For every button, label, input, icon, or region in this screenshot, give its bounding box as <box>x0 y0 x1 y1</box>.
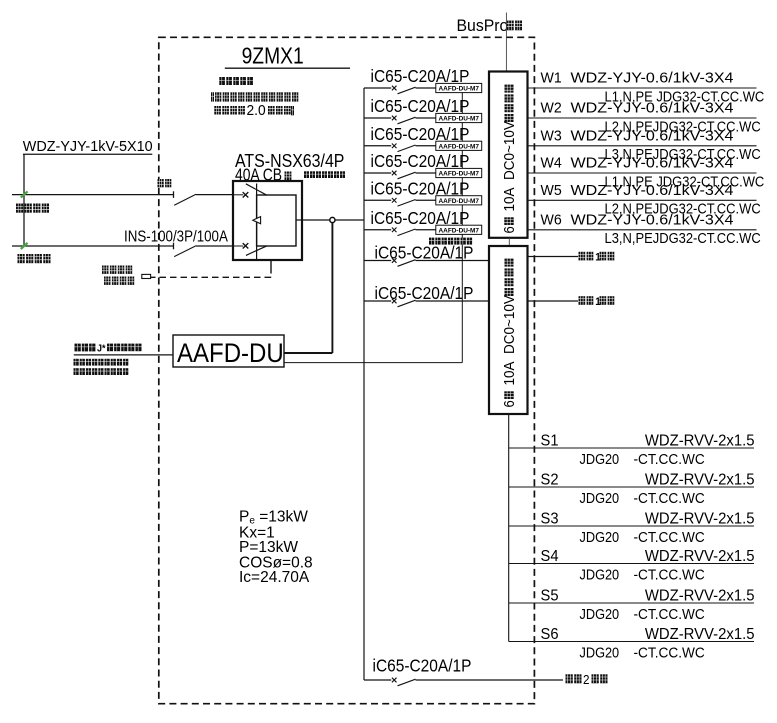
green grip mark on working feed <box>21 243 28 249</box>
svg-text:BusPro: BusPro <box>457 16 509 35</box>
ATS bottom pole cross <box>243 243 249 248</box>
breaker QF6 cross mark <box>392 228 397 233</box>
wire stub from bus to QF7 <box>364 260 391 262</box>
switch blade backup feed <box>174 194 196 205</box>
svg-text:2: 2 <box>583 672 590 687</box>
ATS output wire <box>296 219 330 221</box>
backup feed wire <box>12 194 174 196</box>
svg-text:9ZMX1: 9ZMX1 <box>242 43 304 69</box>
svg-text:WDZ-RVV-2x1.5: WDZ-RVV-2x1.5 <box>645 548 755 565</box>
feeder label leader line <box>23 153 152 155</box>
distribution bus vertical <box>363 88 365 680</box>
note: enclosure type (CJK) <box>219 77 253 85</box>
switch contact tick working <box>173 243 175 250</box>
svg-text:-CT.CC.WC: -CT.CC.WC <box>634 567 705 584</box>
arc detector AAFD-DU-M7 #6 box <box>436 225 482 234</box>
ATS top blade <box>246 184 267 195</box>
ATS selector triangle <box>253 217 261 224</box>
output wire W3 <box>528 145 757 147</box>
svg-text:JDG20: JDG20 <box>580 528 620 545</box>
wire node to distribution bus <box>335 219 364 221</box>
svg-text:S3: S3 <box>541 510 559 527</box>
fire trip dashed wire <box>151 276 271 278</box>
svg-text:S4: S4 <box>541 548 559 565</box>
label gate-down (CJK) <box>158 179 172 187</box>
label spare circuit 3 (CJK) <box>566 672 608 687</box>
ATS fire trip drop solid <box>270 261 272 269</box>
breaker QF5 blade <box>398 200 416 207</box>
svg-text:JDG20: JDG20 <box>580 605 620 622</box>
signal wire S1 <box>509 447 754 449</box>
signal wire S3 <box>509 525 754 527</box>
label signal line to control center (CJK) <box>75 343 142 355</box>
label fault arc detector (CJK) <box>429 238 472 245</box>
svg-text:iC65-C20A/1P: iC65-C20A/1P <box>375 284 474 303</box>
svg-text:WDZ-YJY-0.6/1kV-3X4: WDZ-YJY-0.6/1kV-3X4 <box>571 70 734 86</box>
note: mounting height 2.0m (CJK) <box>214 102 294 118</box>
breaker QF3 blade <box>398 145 416 152</box>
breaker QF9 blade <box>398 679 416 686</box>
signal wire S6 <box>509 641 754 643</box>
AAFD-DU riser wire to node A <box>331 223 333 353</box>
ATS U1 box <box>233 181 302 260</box>
svg-text:J*: J* <box>97 343 106 355</box>
svg-text:WDZ-RVV-2x1.5: WDZ-RVV-2x1.5 <box>645 432 755 449</box>
label fire cutoff (CJK) <box>104 277 134 285</box>
green grip mark on backup feed <box>21 191 28 197</box>
svg-text:-CT.CC.WC: -CT.CC.WC <box>634 645 705 662</box>
switch contact tick backup <box>173 191 175 198</box>
svg-text:-CT.CC.WC: -CT.CC.WC <box>634 451 705 468</box>
svg-text:AAFD-DU: AAFD-DU <box>177 339 284 369</box>
svg-text:WDZ-RVV-2x1.5: WDZ-RVV-2x1.5 <box>645 626 755 643</box>
note: install location line (CJK) <box>211 92 298 101</box>
svg-text:Ic=24.70A: Ic=24.70A <box>239 569 310 586</box>
svg-text:iC65-C20A/1P: iC65-C20A/1P <box>373 657 472 676</box>
spare output wire 2 <box>528 300 579 302</box>
label fire module (CJK) <box>102 266 132 274</box>
svg-text:iC65-C20A/1P: iC65-C20A/1P <box>375 244 474 263</box>
svg-text:AAFD-DU-M7: AAFD-DU-M7 <box>439 85 480 92</box>
AAFD-DU detector bus horizontal <box>284 362 462 364</box>
output wire W6 <box>528 229 757 231</box>
svg-text:-CT.CC.WC: -CT.CC.WC <box>634 606 705 623</box>
breaker QF6 blade <box>398 229 416 236</box>
wire backup blade to ATS <box>196 194 233 196</box>
svg-text:JDG20: JDG20 <box>580 489 620 506</box>
svg-text:L3,N,PEJDG32-CT.CC.WC: L3,N,PEJDG32-CT.CC.WC <box>605 229 761 246</box>
svg-text:WDZ-YJY-0.6/1kV-3X4: WDZ-YJY-0.6/1kV-3X4 <box>571 182 734 198</box>
label note line2 (CJK) <box>74 359 129 366</box>
wire from QF4 to right <box>416 172 437 174</box>
feeder drop wire <box>23 154 25 246</box>
svg-text:6: 6 <box>501 226 517 234</box>
label backup source (CJK) <box>16 204 49 213</box>
signal wire S2 <box>509 486 754 488</box>
svg-text:W4: W4 <box>541 155 562 171</box>
wire from QF9 to right <box>416 679 564 681</box>
breaker QF4 cross mark <box>392 171 397 176</box>
svg-text:WDZ-RVV-2x1.5: WDZ-RVV-2x1.5 <box>645 471 755 488</box>
arc detector AAFD-DU-M7 #5 box <box>436 196 482 205</box>
svg-text:AAFD-DU-M7: AAFD-DU-M7 <box>439 115 480 122</box>
svg-text:WDZ-YJY-1kV-5X10: WDZ-YJY-1kV-5X10 <box>23 139 153 155</box>
arc detector AAFD-DU-M7 #1 box <box>436 83 482 92</box>
panel enclosure dashed border 9ZMX1 <box>159 37 535 703</box>
svg-text:JDG20: JDG20 <box>580 450 620 467</box>
svg-text:W6: W6 <box>541 212 562 228</box>
wire from QF8 to right <box>416 300 489 302</box>
svg-text:10A DC0~10V: 10A DC0~10V <box>500 121 517 212</box>
dimmer module U2 box 6x10A DC0-10V <box>489 72 528 238</box>
arc detector AAFD-DU-M7 #2 box <box>436 113 482 122</box>
svg-text:AAFD-DU-M7: AAFD-DU-M7 <box>439 227 480 234</box>
svg-text:W3: W3 <box>541 128 562 144</box>
label working source (CJK) <box>18 254 51 263</box>
ATS fire trip drop dashed <box>270 269 272 278</box>
ATS divider line <box>256 184 258 260</box>
note fire signal interface (CJK) <box>304 171 345 178</box>
svg-text:JDG20: JDG20 <box>580 565 620 582</box>
AAFD-DU unit box <box>173 335 284 367</box>
output wire W5 <box>528 199 757 201</box>
switch blade working feed <box>174 246 196 257</box>
link between dimmer modules <box>508 238 510 246</box>
ATS internal wire bottom <box>234 245 243 247</box>
wire into AAFD-DU <box>74 354 173 356</box>
wire working blade to ATS <box>196 245 233 247</box>
title underline <box>225 67 350 69</box>
svg-text:S5: S5 <box>541 587 559 604</box>
dimmer module U3 rotated label <box>500 259 517 408</box>
ATS mechanism box <box>257 195 296 246</box>
breaker QF7 blade <box>398 260 416 267</box>
svg-text:WDZ-RVV-2x1.5: WDZ-RVV-2x1.5 <box>645 510 755 527</box>
wire stub from bus to QF5 <box>364 199 391 201</box>
wire stub from bus to QF6 <box>364 229 391 231</box>
wire stub from bus to QF3 <box>364 145 391 147</box>
ATS bottom blade <box>246 246 267 256</box>
breaker QF2 cross mark <box>392 116 397 121</box>
wire from QF7 to right <box>416 260 489 262</box>
svg-text:INS-100/3P/100A: INS-100/3P/100A <box>124 229 228 246</box>
node A output junction <box>330 217 335 222</box>
svg-text:AAFD-DU-M7: AAFD-DU-M7 <box>439 198 480 205</box>
svg-text:40A CB: 40A CB <box>235 166 282 185</box>
breaker QF4 blade <box>398 172 416 179</box>
breaker QF1 cross mark <box>392 86 397 91</box>
svg-text:S6: S6 <box>541 626 559 643</box>
signal wire S5 <box>509 602 754 604</box>
wire stub from bus to QF8 <box>364 300 391 302</box>
wire from QF6 to right <box>416 229 437 231</box>
svg-text:WDZ-YJY-0.6/1kV-3X4: WDZ-YJY-0.6/1kV-3X4 <box>571 155 734 171</box>
dimmer module U2 rotated label <box>500 85 517 234</box>
wire stub from bus to QF9 <box>364 679 391 681</box>
wire stub from bus to QF2 <box>364 117 391 119</box>
svg-text:-CT.CC.WC: -CT.CC.WC <box>634 529 705 546</box>
working feed wire <box>12 245 174 247</box>
spare output wire 1 <box>528 256 579 258</box>
svg-text:AAFD-DU-M7: AAFD-DU-M7 <box>439 143 480 150</box>
fire module connector box <box>142 274 151 278</box>
svg-text:WDZ-RVV-2x1.5: WDZ-RVV-2x1.5 <box>645 587 755 604</box>
svg-text:-CT.CC.WC: -CT.CC.WC <box>634 490 705 507</box>
signal wire S4 <box>509 563 754 565</box>
output wire W2 <box>528 117 757 119</box>
arc detector AAFD-DU-M7 #4 box <box>436 168 482 177</box>
ATS rating class CJK char <box>285 172 292 181</box>
svg-text:WDZ-YJY-0.6/1kV-3X4: WDZ-YJY-0.6/1kV-3X4 <box>571 128 734 144</box>
svg-text:W5: W5 <box>541 182 562 198</box>
wire stub from bus to QF4 <box>364 172 391 174</box>
arc detector AAFD-DU-M7 #3 box <box>436 141 482 150</box>
breaker QF2 blade <box>398 117 416 124</box>
breaker QF7 cross mark <box>392 258 397 263</box>
wire stub from bus to QF1 <box>364 87 391 89</box>
wire from QF2 to right <box>416 117 437 119</box>
label spare circuit 1 (CJK) <box>579 252 615 264</box>
ATS internal wire top <box>234 194 243 196</box>
breaker QF8 cross mark <box>392 299 397 304</box>
signal bus vertical from dimmer module 2 <box>508 414 510 642</box>
breaker QF3 cross mark <box>392 144 397 149</box>
svg-text:JDG20: JDG20 <box>580 643 620 660</box>
BusPro drop wire <box>505 13 507 72</box>
label note line3 (CJK) <box>74 368 129 375</box>
svg-text:S1: S1 <box>541 432 559 449</box>
output wire W1 <box>528 87 757 89</box>
svg-text:W2: W2 <box>541 100 562 116</box>
svg-text:6: 6 <box>501 400 517 408</box>
AAFD-DU output wire to node <box>284 352 332 354</box>
ATS top pole cross <box>243 192 249 197</box>
breaker QF5 cross mark <box>392 198 397 203</box>
wire from QF3 to right <box>416 145 437 147</box>
breaker QF9 cross mark <box>392 678 397 683</box>
wire from QF1 to right <box>416 87 437 89</box>
BusPro bus label CJK <box>507 21 522 31</box>
breaker QF1 blade <box>398 87 416 94</box>
dimmer module U3 box 6x10A DC0-10V <box>489 246 528 414</box>
svg-text:S2: S2 <box>541 471 559 488</box>
wire from QF5 to right <box>416 199 437 201</box>
svg-text:AAFD-DU-M7: AAFD-DU-M7 <box>439 170 480 177</box>
label spare circuit 2 (CJK) <box>579 296 615 308</box>
svg-text:10A DC0~10V: 10A DC0~10V <box>500 295 517 386</box>
svg-text:WDZ-YJY-0.6/1kV-3X4: WDZ-YJY-0.6/1kV-3X4 <box>571 100 734 116</box>
svg-text:W1: W1 <box>541 70 562 86</box>
svg-text:2.0: 2.0 <box>247 102 266 118</box>
svg-text:WDZ-YJY-0.6/1kV-3X4: WDZ-YJY-0.6/1kV-3X4 <box>571 212 734 228</box>
breaker QF8 blade <box>398 300 416 307</box>
AAFD-DU detector bus riser <box>461 92 463 363</box>
output wire W4 <box>528 172 757 174</box>
